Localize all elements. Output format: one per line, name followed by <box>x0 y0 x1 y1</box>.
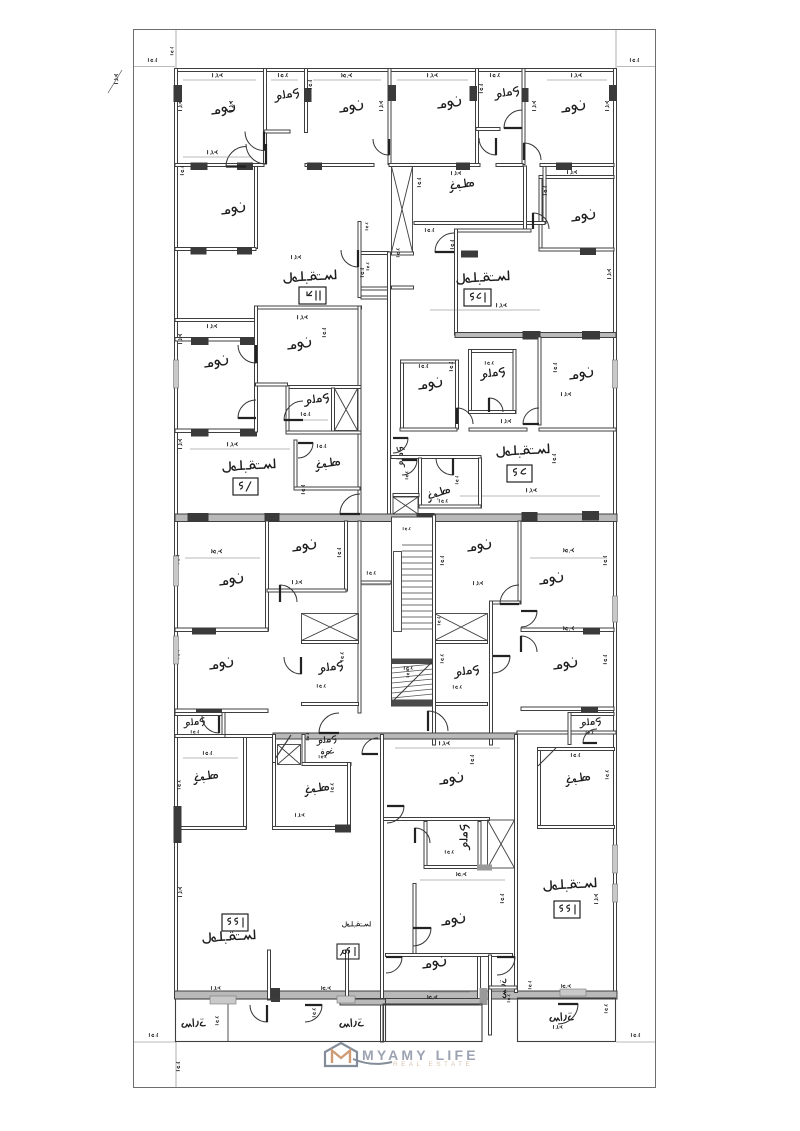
dim 1.9 cell <box>366 263 369 270</box>
reception75/kitchen top wall <box>286 431 361 434</box>
wall hammam L right <box>305 69 308 133</box>
dim 2.36 <box>439 499 447 502</box>
dim 3.24 <box>292 255 301 258</box>
dim 3.58 <box>562 392 571 395</box>
dim 2.05 rot <box>605 771 608 779</box>
dim 1.88 <box>301 412 309 415</box>
column <box>237 163 253 171</box>
door terrace L2 <box>305 1005 322 1022</box>
dim 3.92 <box>553 1025 562 1028</box>
stair mid dark band <box>392 659 435 665</box>
reception 85 number box <box>507 465 532 482</box>
wall center/right apts x516 <box>515 735 518 993</box>
room label bedroom UR <box>292 539 317 554</box>
terrace right block <box>518 998 616 1042</box>
room label bedroom apt125 <box>561 100 586 115</box>
middle thick band y514 <box>175 514 617 522</box>
right outer wall <box>614 69 617 992</box>
bedroom UR right wall <box>345 521 348 591</box>
door bedroom A2 <box>246 144 266 164</box>
column <box>304 88 312 102</box>
dim 8.50 <box>502 419 511 422</box>
column <box>191 247 207 255</box>
terrace small rot <box>500 979 506 998</box>
dim 2.88 <box>295 813 304 816</box>
dim 1.83 <box>319 755 326 758</box>
dim 3.60 rot <box>607 269 610 278</box>
stair rail <box>394 552 402 632</box>
door terrace R <box>558 1004 578 1024</box>
door hammam L <box>245 132 264 151</box>
hammam lower-right box <box>435 641 488 644</box>
hammam75/shaft divider <box>332 388 335 431</box>
reception alcove wall <box>268 950 271 1000</box>
hammam 85 box <box>469 350 516 353</box>
dim 3.50 rot <box>178 334 181 343</box>
dim 1.50 top-right <box>630 58 638 61</box>
window <box>174 636 179 664</box>
bedroom UL bottom wall <box>175 628 268 632</box>
apt125 bedroom2 top wall <box>539 176 614 179</box>
room label bedroom 85a <box>418 377 443 392</box>
room label hammam 85 <box>479 367 505 380</box>
apt125 bedroom2 left wall <box>539 176 542 249</box>
door corridor bottom <box>497 957 515 975</box>
terrace label right <box>550 1012 574 1021</box>
room label bedroom C2 <box>441 913 466 928</box>
logo swoosh <box>353 1059 392 1064</box>
right apt kitchen box <box>538 748 541 829</box>
cell below elevator <box>392 252 414 255</box>
bedroom C2 walls <box>413 884 416 956</box>
bedroom A2 bottom wall <box>175 248 256 251</box>
apt85 bedroom1 walls <box>401 360 404 429</box>
wall between left apt and center <box>273 735 276 830</box>
light well X right <box>435 614 488 641</box>
apt85 bedroom2 left wall <box>538 337 541 425</box>
column <box>581 707 598 714</box>
kitchen 114 right wall <box>543 167 546 224</box>
column <box>470 86 478 101</box>
dim 3.50 <box>561 985 570 988</box>
dim 3.92 <box>298 316 308 320</box>
window <box>174 556 179 586</box>
room label kitchen center <box>304 782 330 796</box>
dim 1.6 rot <box>306 733 308 740</box>
dim rot k85 <box>455 476 458 483</box>
dim 4.5 rot <box>603 556 606 564</box>
column <box>582 511 599 521</box>
room label hammam 1.46 <box>183 717 205 727</box>
door apt85 b <box>523 408 539 424</box>
dim 1.6 <box>507 995 510 1002</box>
terrace left block <box>176 999 386 1042</box>
dim 3.20 rot <box>176 650 179 658</box>
room label bedroom apt125 2 <box>571 209 596 224</box>
dim 3.60 <box>564 627 574 631</box>
corridor wall y296 <box>361 296 388 299</box>
dim 2.45 rot <box>330 784 333 792</box>
column <box>265 513 280 522</box>
column <box>522 512 538 521</box>
column <box>417 513 435 522</box>
dim 6.20 rot <box>440 556 443 564</box>
dim 2.20 <box>451 640 459 643</box>
left apt kitchen walls <box>244 737 247 829</box>
dim 1.5 bottom-right <box>631 1033 639 1036</box>
door entry center apt <box>428 711 448 731</box>
hammam 75 walls <box>286 386 361 389</box>
dim 1.6 <box>425 228 433 231</box>
bedroom UR bottom wall <box>267 589 346 592</box>
dim 2.30 <box>317 444 325 447</box>
bedroom ML bottom wall <box>175 709 268 713</box>
dim 2.88 <box>445 850 453 853</box>
room label bedroom RA <box>539 572 564 587</box>
small hammam label rot <box>397 447 405 467</box>
dim 0.61 rot <box>406 670 409 677</box>
door hammam LL <box>284 657 301 674</box>
stair bottom dark band <box>392 700 433 707</box>
guest hammam box <box>302 735 305 765</box>
door apt85 a <box>457 408 473 424</box>
window <box>337 996 355 1003</box>
dim 1.51 bottom-left <box>149 1033 157 1036</box>
door kitchen 85 <box>436 458 453 475</box>
dim 2.62 rot <box>449 362 452 370</box>
reception 114 number box <box>299 287 326 304</box>
door hammam 75 <box>284 401 303 420</box>
column <box>582 331 600 340</box>
dim 2.39 rot <box>500 894 503 902</box>
column <box>335 825 351 833</box>
dim 4.45 rot <box>176 555 179 563</box>
door hammam center <box>415 828 430 843</box>
dim 3.75 rot <box>178 101 181 110</box>
room label bedroom A2 <box>221 202 246 217</box>
dim 7.05 rot <box>178 887 181 896</box>
column <box>456 163 470 171</box>
window <box>560 989 586 996</box>
center kitchen walls <box>273 763 276 830</box>
window <box>613 360 618 388</box>
logo house icon <box>325 1043 479 1068</box>
column <box>461 251 478 258</box>
reception 75 number box <box>233 478 258 495</box>
dim 2.44 rot <box>440 655 443 663</box>
dim 1.0 rot <box>301 485 304 493</box>
column <box>240 337 257 345</box>
bedroom M2 top wall <box>256 306 362 309</box>
dim 1.46 <box>191 730 198 733</box>
hammam R bottom wall <box>476 128 500 131</box>
staircase outer box <box>392 517 436 706</box>
dim 3.50 room A1 <box>213 74 223 78</box>
reception155L label <box>203 930 255 945</box>
door kitchen cell <box>435 233 454 252</box>
room label bedroom <box>437 96 462 111</box>
dim 1.20 <box>367 571 375 574</box>
column <box>388 85 397 101</box>
bedroom R-A bottom wall <box>521 628 614 632</box>
dim 2.38 rot <box>479 84 482 92</box>
dim 4.00 <box>428 996 437 999</box>
room label hammam 75 <box>303 393 329 406</box>
dim 2.08 hammam R <box>490 73 499 76</box>
shaft X hammam75 <box>335 389 358 431</box>
dim 3.50 A2 <box>208 151 218 155</box>
room label bedroom M1 <box>204 355 229 370</box>
apt114 bottom-left wall <box>175 319 256 322</box>
dim 3.62 rot <box>470 755 473 763</box>
bottom thick wall band center <box>273 733 517 739</box>
room label kitchen 75 <box>315 457 341 471</box>
dim 2.06 <box>485 361 493 364</box>
cluster left: bedroom UL right wall <box>266 521 269 631</box>
reception 155R number box <box>554 901 580 918</box>
door RB lower <box>521 636 537 652</box>
terrace label 1 <box>182 1018 206 1027</box>
dim 2.11 rot elevator <box>417 178 420 186</box>
hammam L bottom wall <box>264 130 290 133</box>
dim 4.0 rot <box>322 328 325 336</box>
dim 1.38 rot <box>604 1005 607 1013</box>
stair side wall right <box>433 515 436 745</box>
column <box>556 163 572 171</box>
dim 3.20 rot <box>603 655 606 663</box>
door entry 159b <box>362 738 378 754</box>
label hammam right apt <box>579 717 601 727</box>
bedroom M1 bottom wall row <box>175 429 256 433</box>
dim 3.14 <box>452 171 461 174</box>
apt125 left wall <box>455 229 458 335</box>
room label hammam R <box>493 86 519 100</box>
terrace label 2 <box>340 1018 364 1027</box>
column <box>523 331 541 340</box>
reception 125 label <box>457 271 509 286</box>
door corridor L <box>373 139 389 155</box>
door bedroom M1 upper <box>238 345 256 363</box>
dim 1.38 rot <box>215 1017 218 1025</box>
window <box>613 884 618 902</box>
dim 1.6 <box>528 981 531 988</box>
room label bedroom A1 <box>211 102 236 117</box>
dim 1.46 <box>586 731 593 734</box>
reception 159 label <box>342 921 370 928</box>
dim 612 left margin <box>114 74 117 83</box>
reception 85 label <box>497 444 549 459</box>
outer border frame <box>134 30 656 1088</box>
door bedroom C1 <box>387 806 404 823</box>
dim rot <box>450 240 453 248</box>
door entry left apt <box>319 713 339 733</box>
apt85 wall row y428 <box>400 428 457 431</box>
wall bedroom A2 right <box>255 167 258 249</box>
door hammam small <box>402 460 417 475</box>
door hammam LR <box>493 656 510 673</box>
dim 3.42 <box>293 580 302 583</box>
room label bedroom TL <box>467 539 492 554</box>
dim 1.75 bottom margin <box>176 1062 179 1070</box>
room label bedroom <box>339 100 364 115</box>
dim 3.75 rot <box>229 101 232 110</box>
window <box>613 845 618 873</box>
dim 4.72 <box>228 443 238 447</box>
room label bedroom RB <box>553 657 578 672</box>
column <box>583 628 600 635</box>
dim 3.60 <box>564 549 574 553</box>
dim stair top <box>403 527 410 530</box>
dim 1.5 rot <box>437 617 440 624</box>
dim 3.50 <box>568 170 577 173</box>
cluster right spine walls <box>518 521 521 604</box>
shaft X center <box>488 820 515 868</box>
door bedroom UR <box>280 585 297 602</box>
dim 2.58 <box>571 753 579 756</box>
door apt125 hall <box>533 213 549 229</box>
room label kitchen right <box>565 772 591 786</box>
guest shaft X <box>278 745 301 765</box>
label dyoof <box>321 748 334 756</box>
center bedroom C1 <box>384 818 490 821</box>
dim 8.50 <box>497 304 507 308</box>
dim 7.55 rot <box>594 894 597 903</box>
column <box>522 88 529 102</box>
dim 3.50 <box>211 986 220 989</box>
column <box>271 988 280 1002</box>
spine wall below elevator <box>388 252 391 515</box>
column <box>240 429 257 437</box>
terrace strip walls <box>489 955 492 1035</box>
room label hammam lower-left <box>317 661 343 674</box>
column <box>191 337 209 345</box>
apt125 corridor wall <box>524 166 527 229</box>
column <box>307 163 322 171</box>
dim 2.63 rot <box>543 186 546 194</box>
small hammam85b box <box>393 494 419 497</box>
dim 2.20 <box>453 685 461 688</box>
wall row y164 under top bedrooms <box>175 164 264 167</box>
spine wall bottom x382 <box>381 735 384 1043</box>
column <box>174 85 183 102</box>
left apt: hammam 1.46 box <box>175 713 225 716</box>
elevator shaft X <box>392 167 413 253</box>
center hammam box <box>424 822 427 869</box>
reception 155R label <box>544 878 596 893</box>
dim 4.00 <box>457 873 466 876</box>
window <box>210 996 236 1004</box>
corridor wall left of stair <box>361 581 391 584</box>
room label bedroom UL <box>219 573 244 588</box>
door hammam 1.46 <box>202 716 219 733</box>
wall bedroom B2 left <box>476 69 479 165</box>
door corridor R <box>479 138 496 155</box>
door hammam85 <box>489 398 503 412</box>
apt85 top thick wall <box>455 333 616 338</box>
dim 3.30 rot <box>178 439 181 448</box>
door corridor 85 <box>393 438 408 453</box>
dim 3.10 <box>428 74 438 78</box>
dim 2.62 rot <box>553 363 556 371</box>
bedroom C3 bottom wall <box>340 999 482 1006</box>
door right apt hammam <box>583 729 597 743</box>
extension lines top <box>134 66 175 68</box>
dim 2.4 rot <box>337 548 340 556</box>
door bedroom C3 <box>386 957 402 973</box>
dim 2.20 <box>317 684 325 687</box>
door kitchen 75 <box>298 443 313 458</box>
door terrace L1 <box>250 1005 267 1022</box>
chamfer corner <box>273 735 291 762</box>
wall hammam R right / apt125 bedroom left <box>522 69 525 165</box>
extension lines bottom <box>134 1041 176 1043</box>
apt125 hall wall <box>455 229 531 232</box>
room label hammam center <box>460 825 470 850</box>
room label bedroom ML <box>209 657 234 672</box>
left outer wall <box>175 69 178 993</box>
door bedroom A2 b <box>226 147 246 167</box>
room label bedroom C1 <box>439 772 464 787</box>
column <box>237 247 252 255</box>
cluster divider x358 <box>358 521 361 713</box>
dim 5.22 <box>440 742 450 746</box>
column <box>609 85 617 101</box>
hammam lower-left box <box>302 641 359 644</box>
dim 3.10 <box>208 324 217 327</box>
light well X left <box>302 614 359 641</box>
right apt hammam small box <box>568 713 614 716</box>
apt85 bedroom2 bottom wall <box>539 428 616 431</box>
reception 75 label <box>223 459 275 474</box>
wall bedroom A1 right / hammam L left <box>264 69 267 165</box>
kitchen 114 bottom wall <box>414 222 545 225</box>
dim 3.58 <box>572 74 582 78</box>
reception 114 label <box>284 270 336 285</box>
dim 3.60 <box>212 550 222 554</box>
dim 1.6 cell <box>396 249 399 257</box>
door bedroom C2 <box>413 928 431 946</box>
wall x358 mid-left cluster right <box>358 306 361 515</box>
column <box>174 806 182 843</box>
dim 1.79 hammam L <box>278 73 287 76</box>
door hammam R <box>504 110 522 128</box>
kitchen 85 box <box>391 456 481 459</box>
wall bedroom B1 right (spine upper) <box>388 69 391 165</box>
bedroom M1 right wall <box>255 306 258 432</box>
room label bedroom M2 <box>287 337 312 352</box>
dim 3.60 <box>342 74 352 78</box>
left apt corridor wall <box>225 735 275 738</box>
top outer wall <box>175 69 617 72</box>
bedroom M2 bottom wall <box>256 383 288 386</box>
room label kitchen 85 <box>426 485 451 502</box>
door RB upper <box>521 611 537 627</box>
dim 3.80 rot <box>605 101 608 110</box>
column <box>188 513 209 522</box>
bedroom M1 top wall row <box>175 338 256 342</box>
corridor shaft X <box>393 497 418 514</box>
dim 2.44 rot <box>340 653 343 661</box>
apt125 bedroom2 bottom wall <box>539 248 614 251</box>
column <box>196 709 222 716</box>
small cells left of elevator <box>358 222 361 298</box>
window <box>174 360 179 388</box>
label hammam dyoof <box>316 735 336 745</box>
terrace center block <box>383 1004 482 1042</box>
bottom outer wall band <box>175 991 618 999</box>
dim 2.70 <box>203 751 211 754</box>
dim 1.6 cell <box>365 223 368 230</box>
